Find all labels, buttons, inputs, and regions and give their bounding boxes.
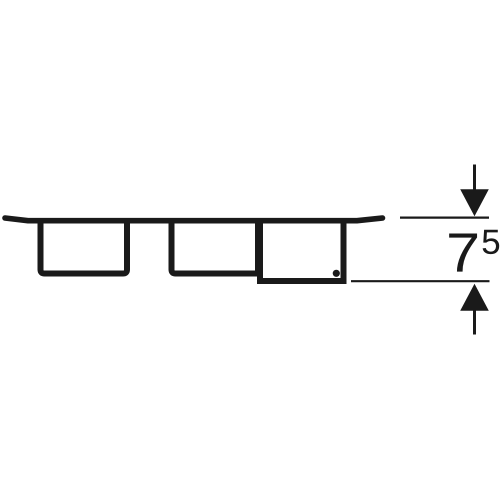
top arrowhead	[460, 189, 489, 216]
top arrow shaft	[473, 165, 476, 194]
bottom arrow shaft	[473, 309, 476, 335]
top dimension line	[400, 217, 489, 219]
rib box 1	[41, 219, 128, 274]
rib box 3	[260, 219, 344, 281]
rib box 2	[172, 219, 259, 274]
dimension text superscript 5	[483, 230, 500, 254]
cover plate profile (top horizontal bar with upturned ends)	[5, 218, 383, 221]
bottom dimension line	[351, 280, 490, 282]
bottom arrowhead	[460, 284, 489, 311]
dimension text 7	[449, 234, 477, 272]
screw dot in box 3	[333, 270, 340, 277]
